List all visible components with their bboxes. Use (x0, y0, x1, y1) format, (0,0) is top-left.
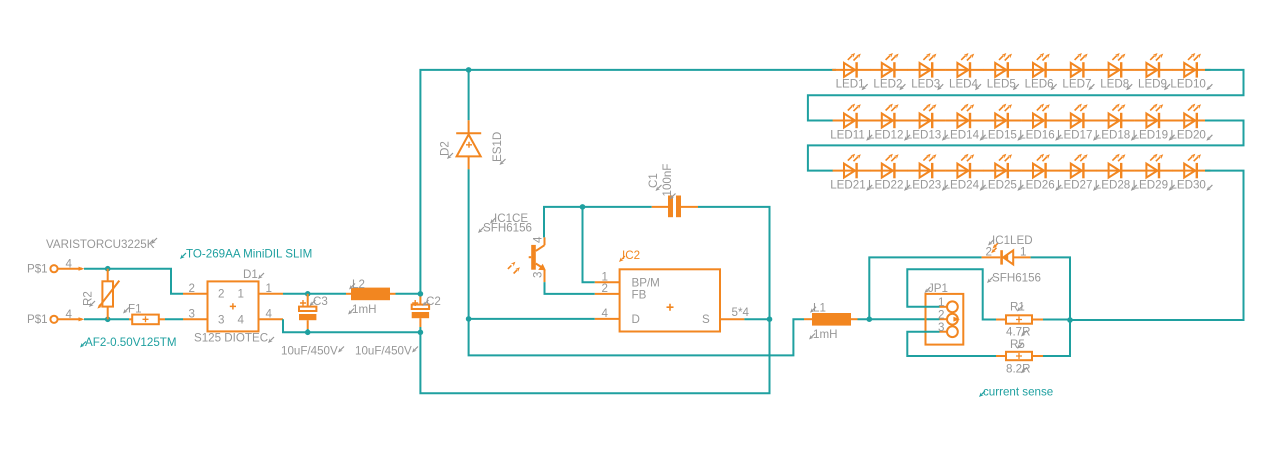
svg-text:4: 4 (66, 258, 73, 271)
svg-text:LED19: LED19 (1133, 128, 1168, 141)
IC2 pin number 2 (602, 282, 608, 295)
wire P$1 top to R2/D1 (84, 269, 183, 294)
svg-text:3: 3 (218, 314, 224, 327)
value 1mH (L1) (809, 328, 837, 341)
label SFH6156 (IC1LED) (987, 272, 1041, 285)
LED diode LED6 (1021, 53, 1059, 91)
svg-text:LED29: LED29 (1133, 178, 1168, 191)
svg-text:LED16: LED16 (1019, 128, 1054, 141)
label R2 (rotated) (82, 291, 96, 307)
svg-text:SFH6156: SFH6156 (992, 272, 1041, 285)
label IC1LED (988, 234, 1033, 247)
D1 inner pin name 1 (238, 288, 244, 301)
wire JP1 pin3 loop to R5 rail (907, 332, 996, 356)
D1 pin number 3 (189, 308, 195, 321)
label TO-269AA MiniDIL SLIM (180, 248, 312, 261)
IC2 pin name BP/M (632, 276, 660, 289)
svg-text:4: 4 (66, 308, 73, 321)
LED diode LED8 (1097, 53, 1135, 91)
wire L2 to C2 (396, 293, 421, 295)
svg-text:R5: R5 (1010, 338, 1025, 351)
svg-text:LED30: LED30 (1170, 178, 1205, 191)
optocoupler transistor IC1CE (508, 237, 546, 282)
LED diode LED28 (1095, 154, 1137, 192)
svg-text:LED14: LED14 (944, 128, 980, 141)
wire P$1 bottom to F1 (84, 318, 129, 320)
label L1 (810, 301, 826, 314)
wire D2 node down and right to L1 (469, 319, 804, 356)
D1 inner pin name 2 (218, 288, 224, 301)
svg-text:1: 1 (266, 282, 272, 295)
node junction D2 / IC2 D-pin (466, 316, 472, 322)
JP1 pin number 3 (938, 321, 944, 334)
wire junction down to IC2 pin BP/M (583, 207, 595, 282)
wire L1 to JP1 pin2 (858, 318, 940, 320)
svg-text:S125 DIOTEC: S125 DIOTEC (194, 332, 268, 345)
value 100nF (rotated) (661, 164, 676, 200)
svg-text:LED27: LED27 (1057, 178, 1092, 191)
capacitor C3 (polarized) (299, 294, 316, 333)
label P$1 top (27, 263, 48, 276)
svg-text:10uF/450V: 10uF/450V (355, 344, 412, 357)
LED diode LED24 (944, 154, 986, 192)
svg-text:LED10: LED10 (1170, 78, 1205, 91)
svg-text:LED5: LED5 (987, 78, 1016, 91)
LED diode LED26 (1019, 154, 1061, 192)
label 10uF/450V (C3) (281, 344, 344, 357)
wire junction up to IC1LED (869, 257, 981, 319)
pin number 4 (P$1 bottom) (66, 308, 73, 321)
D1 pin number 1 (266, 282, 272, 295)
value 1mH (L2) (348, 303, 376, 316)
svg-text:LED8: LED8 (1100, 78, 1129, 91)
wire emitter to IC2 pin FB (545, 282, 595, 294)
pin number 4 (P$1 top) (66, 258, 73, 271)
label ES1D (rotated) (491, 132, 506, 165)
pin header JP1 (926, 294, 964, 345)
IC1CE pin number 3 (rotated) (532, 272, 545, 278)
svg-text:IC1LED: IC1LED (992, 234, 1033, 247)
wire collector rail to C1 rail (544, 207, 583, 238)
svg-text:TO-269AA MiniDIL SLIM: TO-269AA MiniDIL SLIM (186, 248, 312, 261)
LED diode LED2 (870, 53, 908, 91)
D1 inner pin name 3 (218, 314, 224, 327)
label current sense (979, 385, 1053, 398)
LED diode LED16 (1019, 104, 1061, 142)
svg-text:C3: C3 (313, 295, 328, 308)
svg-text:R1: R1 (1010, 301, 1025, 314)
LED diode LED1 (832, 53, 870, 91)
svg-text:10uF/450V: 10uF/450V (281, 344, 338, 357)
wire top rail (C2 up to LED row 1) (420, 70, 836, 294)
svg-text:LED20: LED20 (1170, 128, 1205, 141)
node junction P$1 bottom / R2 / F1 (105, 317, 111, 323)
node junction S / C1 rail / bottom rail (767, 316, 773, 322)
svg-text:LED6: LED6 (1025, 78, 1054, 91)
svg-text:LED17: LED17 (1057, 128, 1092, 141)
IC2 pin number 1 (602, 270, 608, 283)
node junction L1 / JP1 / IC1LED branch (867, 316, 873, 322)
svg-text:D1: D1 (243, 268, 258, 281)
svg-text:P$1: P$1 (27, 313, 48, 326)
fuse F1 (129, 315, 165, 325)
wire row1 right wrap to row2 (808, 70, 1244, 121)
LED diode LED25 (981, 154, 1023, 192)
svg-text:FB: FB (632, 288, 647, 301)
svg-text:VARISTORCU3225K: VARISTORCU3225K (46, 238, 155, 251)
label C3 (310, 295, 328, 308)
svg-text:LED13: LED13 (906, 128, 941, 141)
value 4.7R (1006, 326, 1031, 339)
label JP1 (925, 282, 948, 295)
inductor L2 (346, 288, 396, 301)
D1 pin number 2 (189, 282, 195, 295)
LED diode LED29 (1133, 154, 1175, 192)
svg-text:LED23: LED23 (906, 178, 941, 191)
wire row3 return to R1/R5 junction (1070, 171, 1244, 320)
svg-text:1: 1 (238, 288, 244, 301)
svg-text:LED15: LED15 (981, 128, 1016, 141)
node junction D2 top (466, 67, 472, 73)
label IC1CE (490, 212, 528, 225)
bridge rectifier D1 (183, 281, 283, 331)
svg-text:1: 1 (1020, 246, 1026, 259)
label AF2-0.50V125TM (80, 336, 177, 349)
label R1 (1010, 301, 1025, 314)
svg-text:4: 4 (266, 308, 273, 321)
svg-text:SFH6156: SFH6156 (483, 222, 532, 235)
LED diode LED12 (868, 104, 910, 142)
wire bottom rail D1 pin4 to C2 (283, 319, 420, 332)
wire row2 right wrap to row3 (808, 121, 1244, 171)
LED diode LED23 (906, 154, 948, 192)
label R5 (1010, 338, 1025, 351)
svg-text:LED12: LED12 (868, 128, 903, 141)
node junction R1 / R5 / LED return (1067, 317, 1073, 323)
IC2 pin number 5*4 (732, 306, 750, 319)
inductor L1 (804, 313, 858, 326)
svg-text:2: 2 (218, 288, 224, 301)
IC IC2 (595, 269, 745, 331)
connector pin P$1 bottom (50, 316, 84, 323)
IC2 pin name S (702, 313, 710, 326)
svg-text:ES1D: ES1D (491, 132, 504, 162)
IC1LED pin number 2 (986, 246, 992, 259)
label C1 (rotated) (647, 173, 662, 191)
LED diode LED18 (1095, 104, 1137, 142)
svg-text:3: 3 (189, 308, 195, 321)
LED diode LED15 (981, 104, 1023, 142)
wire D1 pin1 to C3/L2 rail (283, 293, 346, 295)
LED diode LED9 (1135, 53, 1173, 91)
svg-text:4: 4 (238, 314, 245, 327)
LED diode LED20 (1170, 104, 1212, 142)
label C2 (423, 295, 441, 308)
LED diode LED21 (830, 154, 872, 192)
IC2 pin name FB (632, 288, 647, 301)
svg-text:2: 2 (986, 246, 992, 259)
wire IC1LED to right vertical (1031, 257, 1070, 320)
node junction C2 bottom (418, 330, 424, 336)
svg-text:LED24: LED24 (944, 178, 980, 191)
svg-text:AF2-0.50V125TM: AF2-0.50V125TM (85, 336, 177, 349)
svg-text:4.7R: 4.7R (1006, 326, 1031, 339)
optocoupler LED IC1LED (982, 243, 1031, 264)
svg-text:JP1: JP1 (928, 282, 948, 295)
svg-text:LED22: LED22 (868, 178, 903, 191)
svg-text:D: D (632, 313, 640, 326)
wire D2 node to IC2 pin D (469, 318, 595, 320)
label IC2 (619, 249, 640, 262)
LED diode LED10 (1170, 53, 1212, 91)
wire R5 to junction (1043, 320, 1070, 356)
svg-text:C2: C2 (426, 295, 441, 308)
svg-text:LED4: LED4 (949, 78, 979, 91)
svg-text:P$1: P$1 (27, 263, 48, 276)
LED diode LED4 (946, 53, 984, 91)
node junction C3 top (305, 291, 311, 297)
svg-text:4: 4 (602, 307, 609, 320)
svg-text:4: 4 (532, 236, 545, 243)
svg-text:LED7: LED7 (1062, 78, 1091, 91)
capacitor C2 (polarized) (412, 294, 429, 333)
wire F1 to D1 pin3 (165, 318, 183, 320)
LED diode LED13 (906, 104, 948, 142)
label P$1 bottom (27, 313, 48, 326)
diode D2 (456, 70, 481, 319)
resistor R1 (996, 315, 1043, 323)
LED diode LED7 (1059, 53, 1097, 91)
svg-text:S: S (702, 313, 710, 326)
svg-text:LED3: LED3 (911, 78, 940, 91)
IC1LED pin number 1 (1020, 246, 1026, 259)
label F1 (123, 302, 142, 315)
resistor R5 (996, 352, 1043, 360)
svg-text:LED18: LED18 (1095, 128, 1130, 141)
svg-text:2: 2 (602, 282, 608, 295)
svg-text:2: 2 (189, 282, 195, 295)
D1 inner pin name 4 (238, 314, 245, 327)
label D1 (243, 268, 264, 281)
svg-text:1mH: 1mH (813, 328, 837, 341)
varistor R2 (97, 269, 119, 320)
label S125 DIOTEC (194, 332, 274, 345)
wire bottom return rail (C2 down, right to S junction) (420, 319, 769, 393)
label 10uF/450V (C2) (355, 344, 418, 357)
wire JP1 pin1 loop to R1 rail (907, 269, 996, 319)
LED diode LED22 (868, 154, 910, 192)
label L2 (349, 278, 365, 291)
label VARISTORCU3225K (46, 238, 157, 251)
LED diode LED27 (1057, 154, 1099, 192)
svg-text:LED9: LED9 (1138, 78, 1167, 91)
IC2 pin number 4 (602, 307, 609, 320)
node junction C1 rail / IC2 pin1 (580, 204, 586, 210)
svg-text:1mH: 1mH (352, 303, 376, 316)
D1 pin number 4 (266, 308, 273, 321)
svg-text:current sense: current sense (983, 385, 1053, 398)
LED diode LED19 (1133, 104, 1175, 142)
wire IC2 S pin to junction (744, 318, 769, 320)
svg-text:LED28: LED28 (1095, 178, 1130, 191)
label D2 (rotated) (439, 141, 454, 159)
svg-text:3: 3 (532, 272, 545, 278)
svg-text:8.2R: 8.2R (1006, 362, 1031, 375)
svg-text:LED11: LED11 (830, 128, 865, 141)
svg-text:C1: C1 (647, 173, 660, 188)
LED diode LED11 (830, 104, 872, 142)
node junction P$1 top / R2 (105, 266, 111, 272)
capacitor C1 (583, 196, 770, 320)
node junction C2 top (418, 291, 424, 297)
JP1 pin number 2 (938, 308, 944, 321)
svg-text:LED2: LED2 (873, 78, 902, 91)
svg-text:LED21: LED21 (830, 178, 865, 191)
LED diode LED3 (908, 53, 946, 91)
svg-text:D2: D2 (439, 141, 452, 156)
svg-text:IC2: IC2 (622, 249, 640, 262)
LED diode LED17 (1057, 104, 1099, 142)
svg-text:LED26: LED26 (1019, 178, 1054, 191)
svg-text:LED1: LED1 (836, 78, 865, 91)
value 8.2R (1006, 362, 1031, 375)
svg-text:F1: F1 (128, 302, 142, 315)
LED diode LED5 (983, 53, 1021, 91)
svg-text:100nF: 100nF (661, 164, 674, 197)
LED diode LED14 (944, 104, 986, 142)
node junction C3 bottom (305, 330, 311, 336)
wire R1 to junction (1043, 319, 1070, 321)
svg-text:2: 2 (938, 308, 944, 321)
svg-text:LED25: LED25 (981, 178, 1016, 191)
IC2 pin name D (632, 313, 640, 326)
JP1 pin number 1 (938, 296, 944, 309)
LED diode LED30 (1170, 154, 1212, 192)
IC1CE pin number 4 (rotated) (532, 236, 545, 243)
svg-text:5*4: 5*4 (732, 306, 750, 319)
connector pin P$1 top (50, 265, 84, 272)
label SFH6156 (IC1CE) (478, 222, 532, 235)
